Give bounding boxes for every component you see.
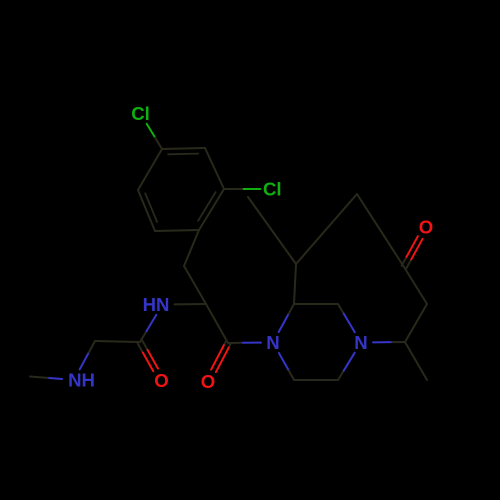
ketone C3=O3 double bond [406, 260, 411, 269]
wire bond CH2-ring ipso [184, 230, 199, 266]
wire chain X3-X1 (upper left diagonal) [248, 197, 296, 264]
svg-text:O: O [419, 217, 433, 238]
piperazine edge Cbl-Cbr [294, 379, 338, 381]
svg-text:HN: HN [143, 294, 170, 315]
wire bond Calpha-C2 [206, 304, 228, 343]
carbonyl C2=O2 double bond [224, 342, 226, 345]
amide bond C1-NH [140, 331, 147, 342]
aromatic inner line A-V1 [168, 153, 198, 156]
wire bond Calpha-CH2 benzylic [184, 266, 206, 304]
wire bond CH2-C1 [95, 341, 140, 342]
benzene ring edge B-V4 [199, 189, 224, 230]
benzene ring edge A-V1 [162, 148, 205, 149]
svg-text:O: O [154, 370, 168, 391]
piperazine edge Cbr-N2 [338, 371, 344, 380]
svg-text:Cl: Cl [263, 179, 282, 200]
svg-text:Cl: Cl [131, 103, 150, 124]
wire bond R1-R2 [405, 304, 427, 342]
benzene ring edge V6-A [138, 149, 162, 190]
wire bond CH3-NH (methylamine) [30, 377, 49, 379]
piperazine edge N1-Cbl [279, 353, 289, 371]
benzene ring edge V1-B [205, 148, 224, 189]
piperazine edge N1-Ctl [279, 314, 289, 333]
wire chain P-C3 (descending diagonal) [357, 194, 404, 267]
bond N2-R1 [373, 341, 392, 343]
svg-text:NH: NH [68, 370, 95, 391]
bond ring-Cl1 [154, 136, 162, 149]
amide bond NH-Calpha (drawn dark in source) [175, 303, 207, 305]
wire stub X1-Ctl [294, 264, 296, 304]
svg-text:N: N [354, 332, 367, 353]
aromatic inner line B-V4 [198, 192, 216, 221]
benzene ring edge V5-V6 [138, 190, 155, 231]
wire bond NH-CH2 [80, 352, 89, 369]
aromatic inner line V5-V6 [145, 193, 157, 222]
piperazine edge Ctr-N2 [338, 304, 344, 314]
benzene ring edge V4-V5 [155, 230, 199, 231]
piperazine edge Ctl-Ctr [294, 303, 338, 305]
carbonyl C1=O1 double bond [138, 343, 143, 352]
wire chain X1-P (upper right diagonal) [296, 194, 357, 264]
wire bond R1-CH3 terminal [405, 342, 427, 380]
svg-text:N: N [266, 332, 279, 353]
wire bond R2-C3 [404, 267, 427, 304]
bond ring-Cl2 [224, 188, 244, 190]
amide bond C2-N piperazine [228, 342, 243, 344]
svg-text:O: O [201, 371, 215, 392]
